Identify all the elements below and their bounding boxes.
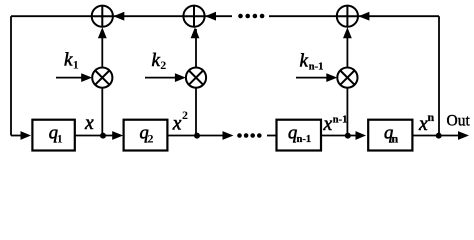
svg-text:1: 1	[57, 131, 63, 145]
svg-text:n: n	[428, 110, 435, 124]
svg-text:n-1: n-1	[333, 115, 348, 126]
svg-text:k: k	[300, 51, 309, 72]
svg-text:k: k	[64, 50, 73, 71]
svg-text:x: x	[172, 114, 182, 135]
svg-text:2: 2	[182, 108, 188, 122]
svg-text:x: x	[418, 114, 428, 135]
svg-text:2: 2	[160, 58, 166, 72]
svg-text:x: x	[323, 114, 333, 135]
svg-text:1: 1	[73, 58, 79, 72]
svg-text:Out: Out	[447, 112, 471, 129]
svg-text:n-1: n-1	[297, 134, 312, 145]
svg-text:n-1: n-1	[309, 62, 324, 73]
svg-text:2: 2	[148, 131, 154, 145]
svg-text:k: k	[152, 50, 161, 71]
svg-text:x: x	[84, 113, 94, 134]
svg-text:n: n	[392, 131, 399, 145]
